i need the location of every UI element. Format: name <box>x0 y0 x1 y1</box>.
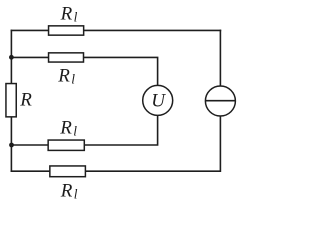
svg-text:U: U <box>151 91 166 112</box>
svg-text:R: R <box>59 118 72 139</box>
svg-text:R: R <box>60 4 73 25</box>
svg-text:l: l <box>71 72 75 87</box>
svg-text:l: l <box>74 10 78 25</box>
svg-text:R: R <box>60 180 73 201</box>
svg-text:R: R <box>57 66 70 87</box>
svg-text:R: R <box>19 89 32 110</box>
svg-text:l: l <box>73 124 77 139</box>
svg-text:l: l <box>74 186 78 201</box>
